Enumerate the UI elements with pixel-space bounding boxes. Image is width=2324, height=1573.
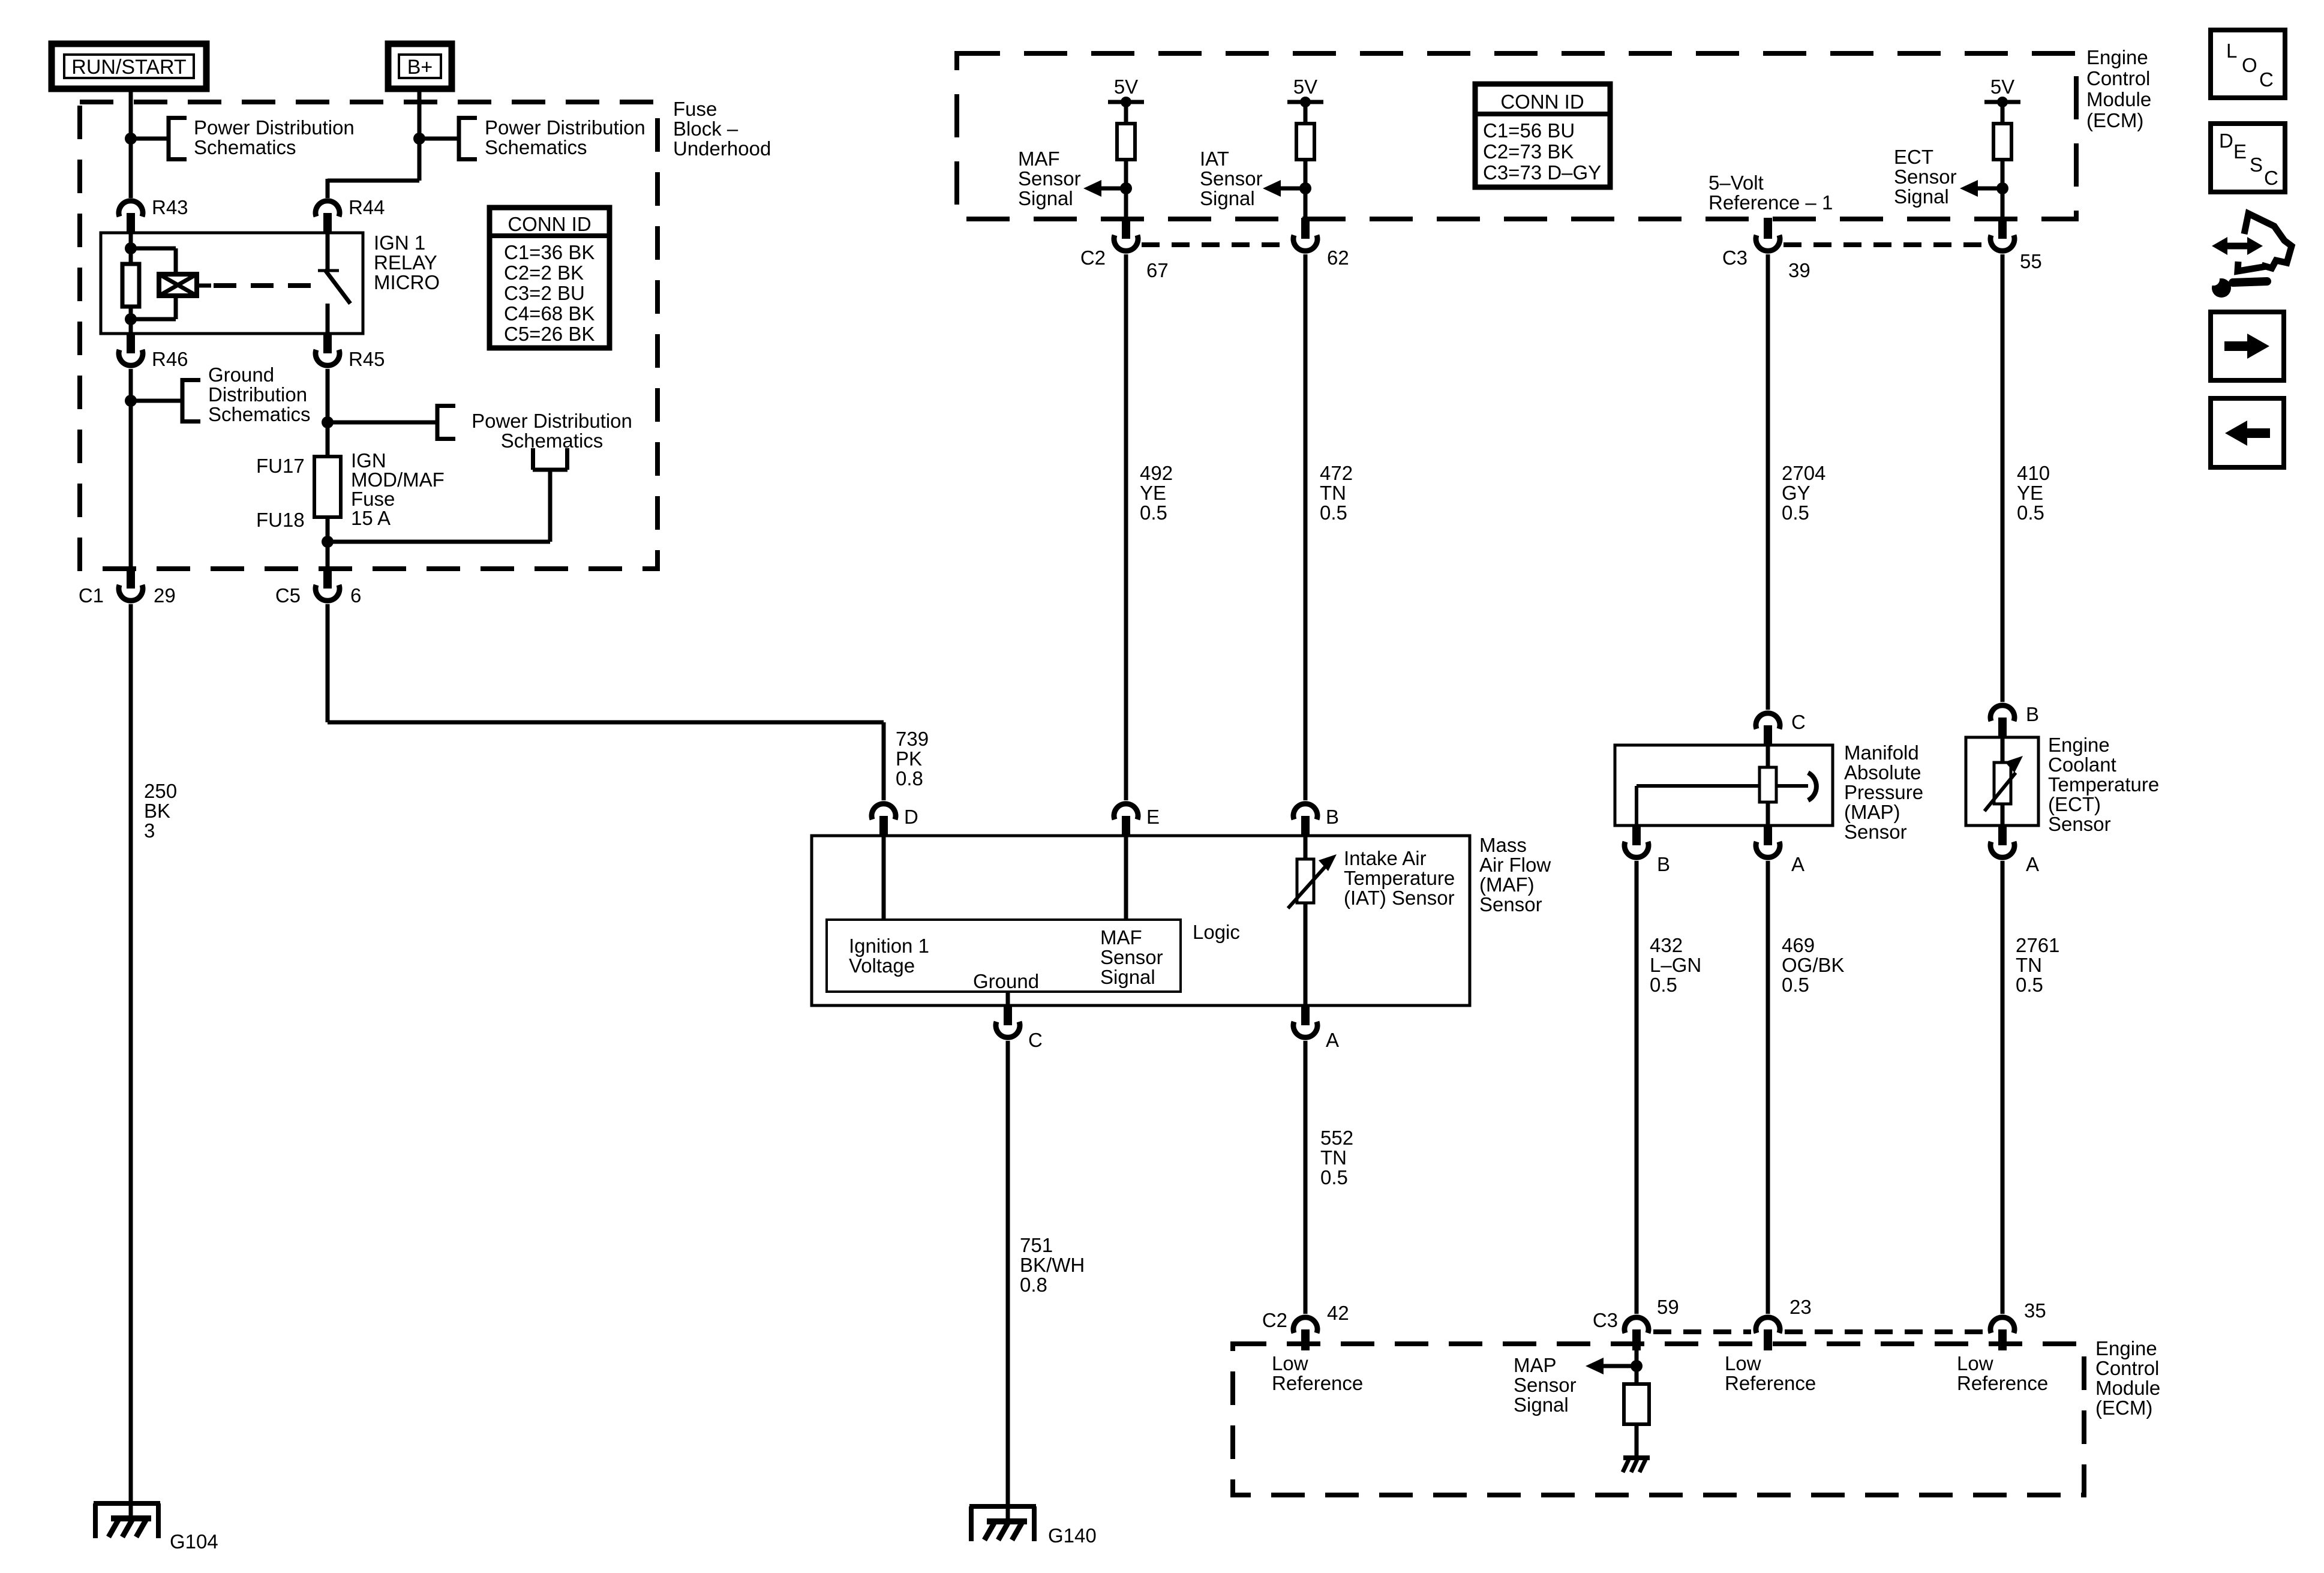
svg-text:35: 35 [2024,1299,2046,1322]
label wire 751 BK/WH 0.8 [1020,1234,1085,1296]
svg-text:Schematics: Schematics [485,136,587,158]
svg-text:0.5: 0.5 [2017,502,2044,524]
connector C3 pin 55 [1990,218,2042,272]
mass air flow (MAF) sensor box [812,836,1470,1005]
junction node below fuse [322,470,550,548]
svg-text:(MAP): (MAP) [1844,801,1900,823]
icon back arrow box [2211,398,2284,467]
svg-text:BK: BK [144,800,170,822]
svg-text:Schematics: Schematics [501,430,603,452]
wire 472 TN IAT signal [1304,254,1308,800]
label Low Reference (23) [1725,1352,1816,1394]
svg-text:BK/WH: BK/WH [1020,1254,1085,1276]
connector R43 [119,196,188,234]
label wire 250 BK 3 [144,780,177,842]
connector R45 [316,332,385,370]
svg-text:RELAY: RELAY [374,251,437,274]
connector C2 pin 42 [1262,1302,1349,1350]
svg-text:Ground: Ground [973,970,1039,992]
wire 2761 TN low reference [2001,861,2005,1314]
connector C1 pin 29 [79,568,176,607]
svg-text:Reference: Reference [1272,1372,1363,1394]
svg-text:2761: 2761 [2016,934,2059,956]
arrow MAF sensor signal [1083,180,1122,197]
svg-text:R43: R43 [152,196,188,218]
svg-text:ECT: ECT [1894,146,1933,168]
svg-text:0.8: 0.8 [1020,1274,1047,1296]
wire 432 L-GN low reference [1635,861,1639,1314]
wire IAT from pin B [1304,836,1308,859]
svg-text:Engine: Engine [2095,1337,2157,1359]
svg-text:Block –: Block – [673,118,738,140]
svg-text:Power Distribution: Power Distribution [472,410,632,432]
wire 2704 GY 5V reference [1766,254,1770,710]
svg-text:0.5: 0.5 [1140,502,1167,524]
svg-text:Sensor: Sensor [1018,167,1081,190]
label Low Reference (35) [1957,1352,2048,1394]
svg-text:Engine: Engine [2048,734,2110,756]
icon LOC box [2211,30,2285,98]
svg-text:L–GN: L–GN [1650,954,1701,976]
svg-text:Control: Control [2086,67,2150,89]
svg-text:Signal: Signal [1018,187,1073,209]
svg-text:Control: Control [2095,1357,2159,1379]
svg-text:TN: TN [2016,954,2042,976]
ECT thermistor [1984,737,2023,825]
svg-text:(ECM): (ECM) [2086,109,2143,131]
connector MAF pin B [1293,804,1339,837]
svg-text:Manifold: Manifold [1844,742,1919,764]
svg-text:TN: TN [1320,482,1346,504]
connector MAF pin E [1114,804,1160,837]
svg-text:A: A [2026,853,2039,875]
svg-text:5V: 5V [1293,76,1317,98]
junction node above fuse [322,416,437,428]
svg-text:(ECM): (ECM) [2095,1397,2152,1419]
connector MAF pin C [996,1004,1043,1051]
junction node IAT signal [1299,182,1311,194]
arrow ECT sensor signal [1960,180,1998,197]
connector MAP pin C [1756,711,1806,746]
svg-text:55: 55 [2020,250,2042,272]
5V supply with pull-up resistor (ECT) [1984,76,2020,218]
connector C3 pin 35 [1990,1299,2046,1350]
MAP internal wire to pin B [1637,786,1759,825]
junction node ground distribution tap [125,395,182,407]
svg-text:3: 3 [144,819,155,842]
svg-text:YE: YE [2017,482,2043,504]
svg-text:Reference – 1: Reference – 1 [1709,191,1833,214]
svg-text:15 A: 15 A [351,507,391,529]
connector R44 [316,196,385,234]
svg-text:E: E [1146,806,1160,828]
wire resistor to internal ground [1635,1424,1639,1458]
svg-text:29: 29 [154,584,176,607]
manifold absolute pressure (MAP) sensor box [1615,745,1833,825]
label IGN MOD/MAF Fuse 15 A [351,449,445,529]
relay K1 IGN 1 RELAY MICRO box [101,233,363,334]
label Logic [1193,921,1240,943]
svg-text:C5: C5 [275,584,301,607]
svg-text:YE: YE [1140,482,1166,504]
off-page reference Ground Distribution Schematics [182,364,311,425]
label MAF Sensor Signal [1018,148,1081,209]
wire Ground to pin C [1006,992,1010,1005]
label wire 492 YE 0.5 [1140,462,1173,524]
svg-text:Reference: Reference [1957,1372,2048,1394]
svg-text:Sensor: Sensor [1844,821,1907,843]
svg-text:Sensor: Sensor [2048,813,2111,835]
svg-text:Reference: Reference [1725,1372,1816,1394]
svg-text:472: 472 [1320,462,1353,484]
wire R46 to C1 [129,369,133,570]
label Engine Coolant Temperature (ECT) Sensor [2048,734,2159,835]
wire 739 PK from C5 to MAF pin D [328,604,884,800]
svg-text:Signal: Signal [1100,966,1155,988]
relay coil (crossed box) [159,274,211,296]
junction node on B+ wire [413,133,459,145]
connector MAP pin A [1756,824,1804,875]
svg-text:R45: R45 [349,348,385,370]
svg-text:Engine: Engine [2086,46,2148,68]
connector ECT pin B [1990,703,2039,739]
svg-text:G104: G104 [170,1530,218,1553]
svg-text:Coolant: Coolant [2048,754,2116,776]
svg-text:5V: 5V [1114,76,1138,98]
svg-text:C2=2 BK: C2=2 BK [504,262,584,284]
power feed RUN/START [52,44,206,89]
relay actuation dashed link [214,283,318,288]
connector MAF pin D [872,804,918,837]
svg-text:(IAT) Sensor: (IAT) Sensor [1344,887,1455,909]
svg-text:Signal: Signal [1514,1394,1569,1416]
svg-text:D: D [2219,130,2233,152]
svg-text:RUN/START: RUN/START [71,56,186,79]
relay coil resistor [122,233,139,334]
relay switch [318,233,350,334]
label FU17 [256,455,305,477]
svg-text:Module: Module [2086,88,2151,110]
svg-text:5V: 5V [1990,76,2014,98]
wire B+ to relay R44 [328,89,419,198]
svg-text:FU17: FU17 [256,455,305,477]
wire IAT to pin A [1304,903,1308,1005]
label wire 472 TN 0.5 [1320,462,1353,524]
svg-text:C: C [2259,68,2274,91]
svg-text:492: 492 [1140,462,1173,484]
svg-text:L: L [2226,40,2237,62]
label Ground [973,970,1039,992]
connector grouping dashed line C2 top [1142,242,1290,247]
label MAF Sensor Signal (logic) [1100,926,1163,988]
MAP internal wire to pin A [1766,802,1770,825]
label IGN 1 RELAY MICRO [374,232,440,293]
label Manifold Absolute Pressure (MAP) Sensor [1844,742,1923,843]
label wire 410 YE 0.5 [2017,462,2050,524]
connector ECT pin A [1990,824,2039,875]
label Low Reference (42) [1272,1352,1363,1394]
connector C3 pin 59 [1593,1296,1679,1350]
svg-text:Intake Air: Intake Air [1344,847,1427,869]
5V supply with pull-up resistor (MAF) [1108,76,1144,218]
svg-text:B: B [1657,853,1670,875]
connector grouping dashed line C3 top [1783,242,1986,247]
svg-text:C1: C1 [79,584,104,607]
engine control module (ECM) dashed box bottom [1233,1344,2084,1495]
svg-text:(MAF): (MAF) [1479,873,1535,896]
label Engine Control Module (ECM) top [2086,46,2151,131]
icon diagnostic tool (arrow, connector, wrench) [2208,214,2292,298]
svg-text:MAP: MAP [1514,1354,1557,1376]
svg-text:Voltage: Voltage [849,954,915,977]
svg-text:C5=26 BK: C5=26 BK [504,323,594,345]
svg-text:C2: C2 [1080,247,1106,269]
svg-text:C3=73 D–GY: C3=73 D–GY [1483,161,1601,184]
svg-text:410: 410 [2017,462,2050,484]
label wire 2761 TN 0.5 [2016,934,2059,996]
fuse block - underhood dashed box [80,102,657,569]
svg-text:O: O [2242,54,2257,76]
svg-text:739: 739 [896,728,929,750]
svg-text:TN: TN [1320,1146,1347,1169]
junction node MAF signal [1120,182,1132,194]
svg-text:C3=2 BU: C3=2 BU [504,282,585,304]
svg-text:C: C [1791,711,1806,733]
label Engine Control Module (ECM) bottom [2095,1337,2160,1419]
table CONN ID (fuse block) [490,208,609,348]
svg-text:23: 23 [1789,1296,1812,1318]
svg-text:B+: B+ [407,56,433,79]
arrow IAT sensor signal [1263,180,1301,197]
svg-text:Logic: Logic [1193,921,1240,943]
arrow MAP sensor signal [1586,1358,1632,1374]
svg-text:G140: G140 [1048,1524,1097,1547]
svg-text:0.5: 0.5 [1782,974,1809,996]
svg-text:OG/BK: OG/BK [1782,954,1845,976]
svg-text:Underhood: Underhood [673,137,771,160]
svg-text:MAF: MAF [1100,926,1142,948]
connector grouping dashed line C3 bottom [1653,1329,1986,1334]
svg-text:432: 432 [1650,934,1683,956]
engine control module (ECM) dashed box top [957,53,2076,219]
svg-text:C1=56 BU: C1=56 BU [1483,119,1575,142]
label wire 2704 GY 0.5 [1782,462,1825,524]
svg-text:(ECT): (ECT) [2048,793,2101,815]
table CONN ID (ECM) [1475,84,1610,187]
svg-text:0.5: 0.5 [1782,502,1809,524]
svg-text:C1=36 BK: C1=36 BK [504,241,594,263]
svg-text:C3: C3 [1722,247,1747,269]
svg-text:Low: Low [1272,1352,1308,1374]
svg-text:39: 39 [1788,259,1810,281]
svg-text:Sensor: Sensor [1479,893,1542,915]
icon forward arrow box [2211,312,2284,380]
label wire 432 L-GN 0.5 [1650,934,1701,996]
wire MAF pin D to logic [882,836,886,920]
svg-text:Schematics: Schematics [194,136,296,158]
connector C3 pin 39 [1722,218,1810,281]
svg-text:S: S [2250,154,2263,176]
ground G104 [94,1503,218,1553]
svg-text:62: 62 [1327,247,1349,269]
wire MAF pin E to logic [1124,836,1128,920]
connector C5 pin 6 [275,568,362,607]
svg-text:IAT: IAT [1200,148,1229,170]
label wire 552 TN 0.5 [1320,1127,1353,1188]
svg-text:Signal: Signal [1200,187,1255,209]
ground G140 [969,1506,1097,1547]
svg-text:42: 42 [1327,1302,1349,1324]
svg-text:Temperature: Temperature [2048,773,2159,795]
label wire 739 PK 0.8 [896,728,929,789]
label Fuse Block - Underhood [673,98,771,160]
svg-text:469: 469 [1782,934,1815,956]
svg-text:Low: Low [1957,1352,1993,1374]
label IAT Sensor Signal [1200,148,1263,209]
svg-text:0.5: 0.5 [1320,502,1347,524]
svg-text:A: A [1326,1029,1339,1051]
IAT thermistor [1288,854,1337,908]
svg-text:B: B [2026,703,2039,725]
svg-text:5–Volt: 5–Volt [1709,172,1764,194]
connector C2 pin 62 [1293,218,1349,269]
off-page reference Power Distribution Schematics (fuse feed) [437,404,632,452]
svg-text:B: B [1326,806,1339,828]
label ECT Sensor Signal [1894,146,1957,208]
svg-text:Sensor: Sensor [1514,1374,1577,1396]
svg-text:67: 67 [1146,259,1169,281]
svg-text:Ground: Ground [208,364,274,386]
svg-text:A: A [1791,853,1804,875]
svg-text:0.5: 0.5 [2016,974,2043,996]
svg-text:FU18: FU18 [256,509,305,531]
off-page reference Power Distribution Schematics (left) [169,116,355,161]
svg-text:Pressure: Pressure [1844,781,1923,803]
wire R45 to fuse FU17 [326,369,330,457]
svg-text:C2: C2 [1262,1309,1287,1331]
svg-text:Power Distribution: Power Distribution [194,116,355,139]
svg-text:MICRO: MICRO [374,271,440,293]
svg-text:0.8: 0.8 [896,767,923,789]
MAP signal internal wire [1635,1350,1639,1384]
svg-text:C: C [2264,167,2278,189]
5V supply with pull-up resistor (IAT) [1287,76,1323,218]
junction node relay coil top [125,242,176,274]
svg-text:2704: 2704 [1782,462,1825,484]
label Ignition 1 Voltage [849,935,929,977]
connector C3 pin 23 [1756,1296,1812,1350]
label Intake Air Temperature (IAT) Sensor [1344,847,1455,909]
svg-text:Schematics: Schematics [208,403,311,425]
svg-text:250: 250 [144,780,177,802]
svg-text:C3: C3 [1593,1309,1618,1331]
svg-text:Module: Module [2095,1377,2160,1399]
svg-text:MAF: MAF [1018,148,1060,170]
svg-text:C: C [1028,1029,1043,1051]
svg-text:Sensor: Sensor [1100,946,1163,968]
svg-text:CONN ID: CONN ID [508,213,591,235]
svg-text:Ignition 1: Ignition 1 [849,935,929,957]
label Mass Air Flow (MAF) Sensor [1479,834,1551,915]
svg-text:Low: Low [1725,1352,1761,1374]
svg-text:Mass: Mass [1479,834,1527,856]
off-page reference Power Distribution Schematics (below fuse) [533,448,568,470]
svg-text:D: D [904,806,918,828]
junction node relay coil bottom [125,296,176,325]
svg-text:Air Flow: Air Flow [1479,854,1551,876]
connector C2 pin 67 [1080,218,1169,281]
label FU18 [256,509,305,531]
svg-text:Sensor: Sensor [1894,166,1957,188]
svg-text:GY: GY [1782,482,1810,504]
engine coolant temperature (ECT) sensor box [1966,737,2038,825]
svg-text:PK: PK [896,748,922,770]
svg-text:Temperature: Temperature [1344,867,1455,889]
junction node on RUN/START wire [125,133,169,145]
wire 250 BK 3 to ground G104 [129,604,133,1518]
power feed B+ [388,44,452,89]
svg-text:Fuse: Fuse [673,98,717,120]
wire fuse to C5 [326,517,330,570]
svg-text:552: 552 [1320,1127,1353,1149]
connector R46 [119,332,188,370]
svg-text:0.5: 0.5 [1320,1166,1348,1188]
wire 492 YE MAF signal [1124,254,1128,800]
svg-text:59: 59 [1657,1296,1679,1318]
svg-text:Sensor: Sensor [1200,167,1263,190]
label wire 469 OG/BK 0.5 [1782,934,1845,996]
svg-text:E: E [2233,140,2247,163]
icon DESC box [2211,124,2285,192]
wire RUN/START to relay R43 [129,89,133,198]
svg-text:Signal: Signal [1894,185,1949,208]
svg-text:C4=68 BK: C4=68 BK [504,302,594,325]
svg-text:CONN ID: CONN ID [1500,91,1584,113]
svg-text:C2=73 BK: C2=73 BK [1483,140,1574,163]
internal ground (ECM) [1623,1458,1650,1472]
svg-text:Distribution: Distribution [208,383,307,406]
svg-text:6: 6 [350,584,361,607]
connector MAP pin B [1625,824,1670,875]
ECM internal termination resistor [1624,1384,1649,1424]
junction node MAP signal (bottom) [1631,1360,1643,1372]
svg-text:R46: R46 [152,348,188,370]
label MAP Sensor Signal (bottom) [1514,1354,1577,1416]
label 5-Volt Reference - 1 [1709,172,1833,214]
wire 751 BK/WH to ground G140 [1006,1041,1010,1521]
svg-text:R44: R44 [349,196,385,218]
fuse FU17/FU18 IGN MOD/MAF 15A [314,457,341,517]
off-page reference Power Distribution Schematics (B+) [459,116,645,161]
MAF logic box [827,920,1181,992]
wire 469 OG/BK MAP signal [1766,861,1770,1314]
svg-text:IGN 1: IGN 1 [374,232,425,254]
svg-text:751: 751 [1020,1234,1053,1256]
svg-text:0.5: 0.5 [1650,974,1677,996]
wire 410 YE ECT signal [2001,254,2005,702]
svg-text:Absolute: Absolute [1844,761,1921,784]
svg-text:Power Distribution: Power Distribution [485,116,645,139]
junction node ECT signal [1996,182,2008,194]
MAP transducer element [1759,745,1816,802]
connector MAF pin A [1293,1004,1339,1051]
wire 552 TN low reference [1304,1041,1308,1314]
